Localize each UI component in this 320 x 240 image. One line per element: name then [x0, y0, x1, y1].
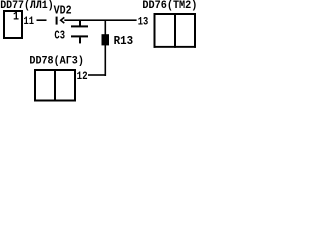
IC DD77 (ЛЛ1) label: [0, 0, 54, 12]
pin 11 label of DD77: [24, 16, 35, 28]
IC DD76 (TM2) label: [142, 0, 197, 12]
pin 12 label of DD78: [77, 71, 88, 83]
IC DD77 box: [3, 10, 23, 39]
svg-text:12: 12: [77, 71, 88, 83]
wire node A: from VD2 to DD76 pin 13: [64, 19, 136, 21]
IC DD78 (АГ3) label: [29, 56, 84, 68]
capacitor C3: [71, 21, 88, 43]
diode VD2 (cathode bar and arrow): [56, 17, 65, 25]
pin function label 1 inside DD77: [13, 11, 19, 24]
svg-text:13: 13: [138, 17, 149, 29]
svg-text:VD2: VD2: [54, 5, 72, 18]
IC DD78 box: [34, 69, 76, 102]
svg-text:DD78(АГ3): DD78(АГ3): [29, 56, 84, 68]
diode VD2 label: [54, 5, 72, 18]
wire from DD77 pin 11 to diode VD2: [37, 19, 47, 21]
pin 13 label of DD76: [138, 17, 149, 29]
wire from DD78 pin 12 to R13 node: [88, 74, 106, 76]
capacitor C3 label: [54, 30, 65, 43]
svg-text:R13: R13: [114, 35, 134, 48]
svg-text:11: 11: [24, 16, 35, 28]
svg-text:C3: C3: [54, 30, 65, 43]
resistor R13 label: [114, 35, 134, 48]
resistor R13 body: [102, 34, 110, 45]
svg-text:DD76(TM2): DD76(TM2): [142, 0, 197, 12]
wire from node A down through R13 to pin 12 net: [105, 20, 107, 76]
IC DD76 box: [154, 13, 197, 48]
svg-text:1: 1: [13, 11, 19, 24]
